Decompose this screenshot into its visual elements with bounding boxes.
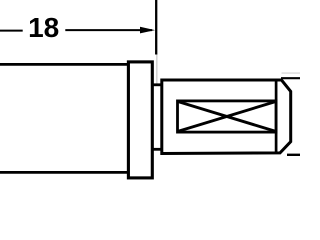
flange bbox=[128, 62, 152, 178]
crimp box bbox=[178, 101, 277, 132]
neck bottom edge bbox=[152, 148, 162, 151]
main body top edge bbox=[0, 63, 129, 66]
right continuation line bottom bbox=[287, 154, 300, 156]
crimp box diagonal TL-BR bbox=[178, 102, 275, 132]
extension line (upper dark segment) bbox=[155, 0, 157, 55]
neck top edge bbox=[152, 83, 162, 86]
crimp box diagonal BL-TR bbox=[178, 102, 275, 132]
extension line (faint lower segment) bbox=[156, 55, 158, 84]
dimension line right segment bbox=[65, 29, 152, 31]
main body bottom edge bbox=[0, 171, 129, 174]
threaded body outline bbox=[162, 80, 291, 154]
dimension line left segment bbox=[0, 30, 23, 32]
faint ghost line top right bbox=[282, 72, 301, 74]
right continuation line top bbox=[281, 77, 300, 79]
svg-text:18: 18 bbox=[28, 12, 59, 43]
separator line bbox=[275, 81, 278, 153]
dimension arrowhead bbox=[140, 27, 155, 34]
